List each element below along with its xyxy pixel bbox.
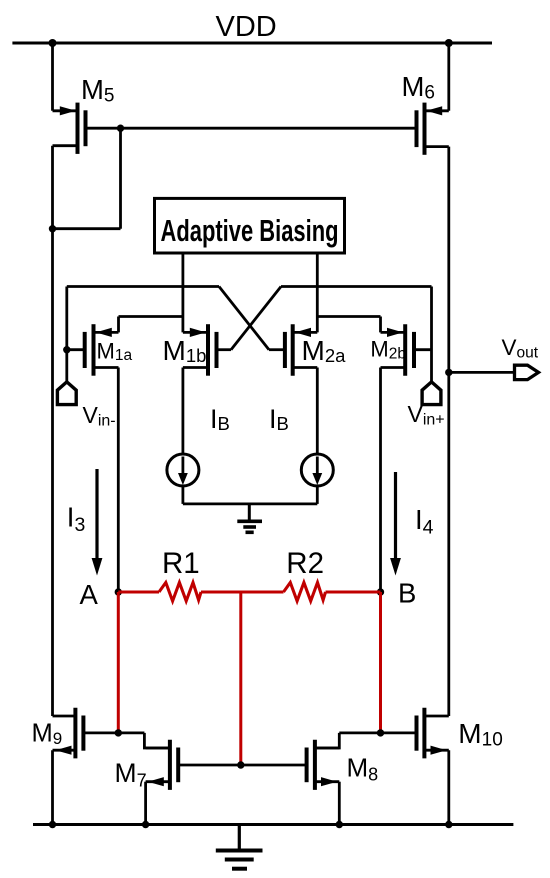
wire: M5 diode loop up to gate <box>119 128 122 229</box>
wire: M1a gate lead <box>67 348 85 351</box>
svg-text:Vout: Vout <box>502 335 539 362</box>
svg-text:M2b: M2b <box>370 337 406 363</box>
junction dot rail M9 <box>49 821 56 828</box>
junction dot M1a gate <box>63 346 70 353</box>
wire: node A to R1 (red) <box>118 591 159 594</box>
current arrow I4 <box>390 472 401 576</box>
junction dot rail M7 <box>142 821 149 828</box>
port Vin+ <box>422 382 441 405</box>
wire: M2b gate lead <box>414 348 432 351</box>
wire: Vin+ vertical <box>430 287 433 383</box>
wire: M1a drain down to node A <box>117 368 120 593</box>
transistor M7 <box>146 740 179 790</box>
svg-text:M1a: M1a <box>97 339 133 365</box>
svg-text:M10: M10 <box>458 718 502 751</box>
junction dot rail M8 <box>336 821 343 828</box>
svg-text:A: A <box>80 579 99 610</box>
wire: M1a-M1b source bridge <box>119 315 183 318</box>
svg-text:M7: M7 <box>115 758 147 791</box>
adaptive biasing block U1 <box>155 198 345 253</box>
ground rail <box>33 823 513 826</box>
wire: right rail M6 drain down to M10 drain <box>447 147 450 716</box>
svg-text:VDD: VDD <box>216 11 277 43</box>
wire: M8 source down to ground rail <box>338 782 341 825</box>
wire: cross diagonal Vin- to M2a gate <box>219 287 269 350</box>
svg-text:I4: I4 <box>415 504 434 538</box>
transistor M1a <box>85 324 119 376</box>
wire: R1 to R2 (red) <box>201 591 284 594</box>
wire: M10 source down to ground rail <box>447 750 450 824</box>
junction dot M5 gate <box>117 125 124 132</box>
junction dot node B / M10 gate <box>377 729 384 736</box>
wire: cross diagonal Vin+ to M1b gate <box>231 287 281 350</box>
svg-text:M6: M6 <box>402 71 436 104</box>
resistor R1 <box>159 583 201 602</box>
current source IB right <box>301 454 333 486</box>
resistor R2 <box>284 583 326 602</box>
svg-text:IB: IB <box>210 404 230 434</box>
wire: M2a drain down to IB <box>316 368 319 455</box>
wire: M2a gate lead <box>269 348 285 351</box>
ground (main) <box>216 825 263 869</box>
transistor M2b <box>381 324 415 376</box>
wire: node B down to M10 gate (red) <box>379 592 382 733</box>
wire: M1b gate lead <box>217 348 232 351</box>
wire: Vin- cross rail <box>67 285 219 288</box>
svg-text:M2a: M2a <box>302 335 347 366</box>
svg-text:R1: R1 <box>162 547 200 580</box>
wire: Vin- vertical <box>65 287 68 383</box>
wire: M7 source down to ground rail <box>144 782 147 825</box>
VDD rail <box>12 42 492 45</box>
svg-text:B: B <box>398 578 416 609</box>
wire: M1b drain down to IB <box>181 368 184 455</box>
wire: M2b drain down to node B <box>379 368 382 593</box>
junction dot node A / M9 gate <box>115 729 122 736</box>
junction dot center tap <box>237 761 244 768</box>
wire: left rail VDD to M5 source <box>51 43 54 111</box>
transistor M9 <box>53 708 84 759</box>
transistor M2a <box>285 324 317 376</box>
svg-text:IB: IB <box>269 404 289 434</box>
wire: M10 gate bus <box>339 732 416 735</box>
wire: Vin+ cross rail <box>281 285 432 288</box>
svg-text:M8: M8 <box>347 753 379 785</box>
svg-text:R2: R2 <box>286 547 324 580</box>
wire: M5 diode loop bottom <box>53 227 121 230</box>
transistor M1b <box>183 324 217 376</box>
transistor M5 <box>53 103 86 154</box>
wire: box right stub down to M2a source <box>316 253 319 332</box>
wire: right rail VDD to M6 source <box>447 43 450 111</box>
port Vout <box>515 365 539 379</box>
port Vin- <box>57 382 76 405</box>
wire: node A down to M9 gate (red) <box>117 592 120 733</box>
wire: M2b source corner <box>379 317 382 333</box>
junction dot rail M10 <box>445 821 452 828</box>
svg-text:Vin-: Vin- <box>83 402 116 430</box>
wire: M5 drain down left rail <box>51 146 54 229</box>
wire: center tap down to M7/M8 gates (red) <box>239 592 242 765</box>
node A <box>115 588 122 595</box>
svg-text:M1b: M1b <box>163 335 207 366</box>
junction dot VDD-left <box>49 39 57 47</box>
junction dot VDD-right <box>445 39 453 47</box>
transistor M6 <box>417 103 449 155</box>
wire: M2a-M2b source bridge <box>317 315 380 318</box>
wire: M8 drain jog up <box>315 733 339 748</box>
current arrow I3 <box>92 469 103 576</box>
wire: IB right to tail bus <box>316 486 319 504</box>
wire: M7-M8 gate bus <box>178 764 306 767</box>
node B <box>377 588 384 595</box>
svg-text:I3: I3 <box>67 502 86 536</box>
wire: left rail to M9 drain <box>51 229 54 716</box>
wire: Vout tap <box>449 371 515 374</box>
transistor M10 <box>417 708 449 759</box>
wire: M1a source up to bridge <box>117 317 120 333</box>
ground (tail) <box>237 504 262 532</box>
svg-text:M5: M5 <box>81 74 115 107</box>
wire: M9 source down to ground rail <box>51 750 54 824</box>
wire: M9 gate bus <box>83 732 144 735</box>
junction dot M5 drain loop <box>49 225 56 232</box>
wire: jog to M7 drain <box>144 733 170 748</box>
svg-text:Adaptive Biasing: Adaptive Biasing <box>161 214 339 248</box>
wire: IB left to tail bus <box>181 486 184 504</box>
wire: box left stub down to M1b source <box>181 253 184 332</box>
transistor M8 <box>307 740 340 790</box>
svg-text:M9: M9 <box>32 720 63 749</box>
wire: R2 to node B (red) <box>326 591 381 594</box>
current source IB left <box>167 454 199 486</box>
wire: tail bus <box>183 502 317 505</box>
junction dot Vout node <box>445 369 452 376</box>
wire: gate bus M5-M6 <box>86 127 417 130</box>
